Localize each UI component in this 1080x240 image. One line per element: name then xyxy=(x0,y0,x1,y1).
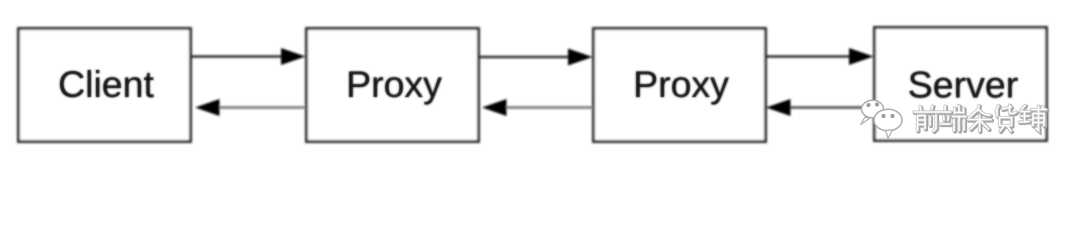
arrow Server to Proxy2 (bottom, left-pointing) xyxy=(788,106,874,109)
box Server xyxy=(875,28,1047,141)
box Proxy 1 xyxy=(307,29,479,142)
svg-text:Server: Server xyxy=(908,64,1018,106)
box Proxy 2 xyxy=(594,29,766,142)
arrow Proxy2 to Proxy1 (bottom, left-pointing) xyxy=(504,106,593,109)
arrow Proxy2 to Server (top, right-pointing) xyxy=(766,55,852,58)
arrow Proxy1 to Proxy2 (top, right-pointing) xyxy=(479,56,572,59)
box Client xyxy=(19,29,191,142)
svg-text:Proxy: Proxy xyxy=(346,63,442,105)
arrow Client to Proxy1 (top, right-pointing) xyxy=(191,55,284,58)
watermark text 前端杂货铺 (outlined strokes) xyxy=(914,105,1047,132)
svg-text:Client: Client xyxy=(58,63,154,105)
arrow Proxy1 to Client (bottom, left-pointing) xyxy=(217,106,306,109)
watermark icon: chat bubbles (WeChat style) xyxy=(861,100,903,138)
svg-text:Proxy: Proxy xyxy=(633,63,729,105)
